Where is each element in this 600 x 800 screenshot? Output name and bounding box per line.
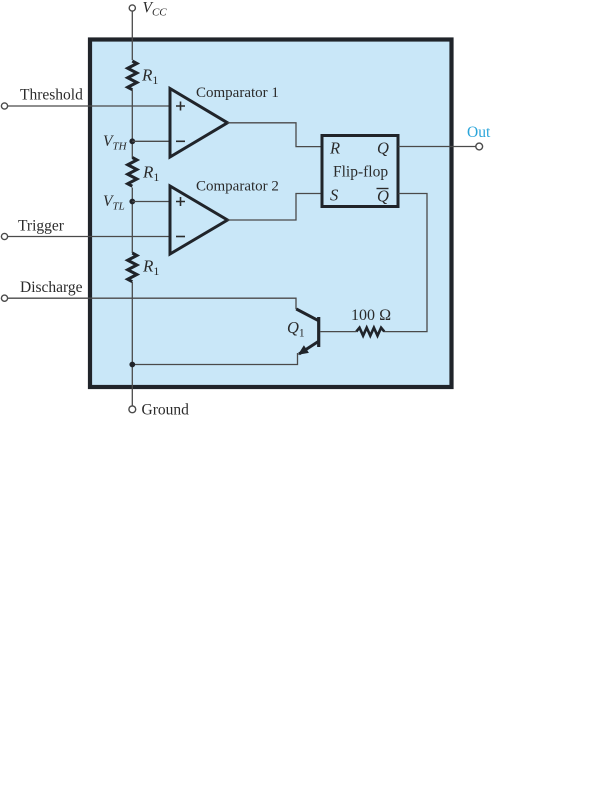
- emitter arrow Q1: [298, 345, 309, 354]
- svg-text:Q: Q: [377, 187, 389, 206]
- resistor R1 (middle): [128, 158, 137, 187]
- svg-text:Threshold: Threshold: [20, 87, 83, 104]
- plus sign comparator 2: [176, 197, 185, 206]
- wire 100 ohm resistor to base of Q1: [320, 331, 356, 333]
- terminal Threshold: [1, 103, 7, 109]
- svg-text:Out: Out: [467, 124, 491, 141]
- plus sign comparator 1: [176, 102, 185, 111]
- terminal Ground: [129, 406, 136, 413]
- wire resistor chain: [131, 282, 133, 365]
- op-amp Comparator 1: [170, 89, 228, 158]
- node VTL: [129, 199, 135, 205]
- wire comparator 1 output to R input: [228, 123, 321, 147]
- collector lead Q1: [296, 309, 318, 321]
- resistor R1 (bottom): [128, 253, 137, 282]
- wire comparator 2 output to S input: [228, 194, 321, 221]
- emitter lead Q1: [299, 342, 318, 355]
- terminal Discharge: [1, 295, 7, 301]
- resistor 100 ohm: [356, 328, 384, 336]
- svg-text:100 Ω: 100 Ω: [351, 307, 391, 324]
- wire Q output to Out terminal: [399, 146, 476, 148]
- node VTH: [129, 138, 135, 144]
- svg-text:Trigger: Trigger: [18, 218, 65, 235]
- svg-text:VCC: VCC: [143, 0, 168, 19]
- wire resistor chain: [131, 188, 133, 254]
- wire VTL to comparator 2 noninverting input: [132, 201, 170, 203]
- minus sign comparator 1: [176, 140, 185, 142]
- svg-text:Comparator 1: Comparator 1: [196, 85, 279, 101]
- svg-text:Ground: Ground: [142, 402, 190, 419]
- wire Threshold: [8, 105, 171, 107]
- svg-text:R: R: [329, 139, 340, 158]
- resistor R1 (top): [128, 61, 137, 90]
- svg-text:Comparator 2: Comparator 2: [196, 179, 279, 195]
- terminal Trigger: [1, 233, 7, 239]
- svg-text:Discharge: Discharge: [20, 279, 83, 296]
- wire VTH to comparator 1 inverting input: [132, 140, 170, 142]
- svg-text:Q: Q: [377, 139, 389, 158]
- minus sign comparator 2: [176, 236, 185, 238]
- flip-flop box: [322, 136, 398, 207]
- terminal Vcc: [129, 5, 135, 11]
- transistor Q1: [296, 309, 318, 355]
- wire ground lead: [131, 365, 133, 406]
- node ground rail junction: [129, 362, 135, 368]
- overline for Qbar: [377, 188, 389, 190]
- terminal Out: [476, 143, 483, 150]
- wire resistor chain: [131, 90, 133, 159]
- wire Discharge: [8, 298, 297, 309]
- wire Qbar to 100 ohm resistor: [384, 194, 427, 332]
- wire emitter to ground rail: [132, 353, 297, 365]
- wire Trigger: [8, 236, 171, 238]
- wire Vcc lead: [131, 11, 133, 60]
- svg-text:S: S: [330, 186, 338, 205]
- IC body (555 timer block): [90, 40, 452, 388]
- op-amp Comparator 2: [170, 186, 228, 254]
- svg-text:Flip-flop: Flip-flop: [333, 164, 388, 181]
- base bar Q1: [317, 317, 320, 347]
